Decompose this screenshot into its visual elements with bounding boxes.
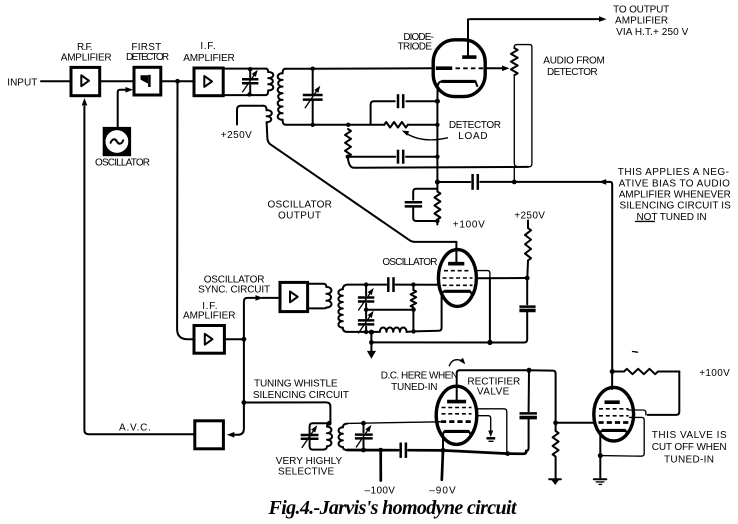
svg-text:AMPLIFIER: AMPLIFIER — [61, 53, 112, 64]
variable capacitor C12 — [355, 425, 373, 447]
resistor R1 detector load — [384, 122, 408, 128]
caption Fig.4 — [268, 497, 518, 519]
inductor T1 secondary — [278, 69, 286, 125]
svg-text:DETECTOR: DETECTOR — [547, 67, 598, 78]
wire IF2 output — [224, 338, 244, 340]
V5 anode plate — [447, 400, 466, 404]
oscillator sync box — [280, 282, 308, 311]
label OSCILLATOR (valve) — [382, 257, 437, 268]
label +100V (bias) — [699, 368, 730, 379]
svg-text:AMPLIFIER: AMPLIFIER — [183, 311, 236, 322]
arrowhead into sync box — [256, 295, 264, 301]
capacitor C3 — [398, 94, 403, 108]
inductor L4 — [323, 423, 332, 449]
wire C1 top lead — [249, 69, 251, 78]
V5 grid 3 (dashed heavy) — [441, 420, 472, 423]
V6 anode plate — [605, 400, 620, 404]
label FIRST DETECTOR — [126, 42, 169, 63]
capacitor C5 bypass — [405, 189, 438, 221]
variable capacitor C1 — [242, 70, 258, 92]
svg-text:–100V: –100V — [365, 486, 396, 497]
wire C9 leads — [365, 310, 367, 332]
wire osc grid rail — [348, 284, 439, 286]
wire AGC bus — [348, 157, 528, 168]
svg-text:–90V: –90V — [429, 486, 456, 497]
wire cathode bus — [371, 341, 524, 343]
wire trunk to AVC — [234, 403, 244, 435]
svg-text:+250V: +250V — [221, 130, 252, 141]
node padder junction — [364, 308, 368, 312]
svg-text:TUNED-IN: TUNED-IN — [391, 382, 437, 393]
wire cathode link — [407, 295, 442, 332]
label +250V (oscillator) — [514, 210, 545, 221]
wire padder row — [366, 309, 413, 311]
rectifier V5 envelope — [436, 386, 477, 444]
label RECTIFIER VALVE — [467, 377, 520, 398]
label OSCILLATOR SYNC. CIRCUIT — [198, 275, 270, 296]
svg-text:SYNC. CIRCUIT: SYNC. CIRCUIT — [198, 284, 270, 295]
V6 grid 3 (dashed heavy) — [599, 421, 629, 424]
node bias junction — [610, 369, 615, 374]
node g-loop junction — [505, 451, 510, 456]
node tank1 top junction — [327, 421, 332, 426]
wire +250V feed — [237, 106, 264, 125]
inductor T1 primary — [266, 69, 273, 96]
cut-off valve V6 envelope — [594, 387, 634, 441]
wire silencing feed — [244, 402, 331, 423]
variable capacitor C2 — [303, 86, 323, 108]
wire secondary top rail — [285, 68, 313, 70]
wire C1 bottom lead — [249, 85, 251, 95]
ground (oscillator) — [367, 351, 376, 359]
node cathode junction — [435, 99, 440, 104]
label OSCILLATOR OUTPUT — [268, 199, 332, 221]
V5 grid 2 (dashed) — [442, 413, 472, 415]
svg-text:OSCILLATOR: OSCILLATOR — [382, 257, 437, 268]
svg-text:VALVE: VALVE — [477, 386, 510, 397]
label +100V (decoupler) — [453, 220, 485, 231]
node osc rail junction 1 — [364, 282, 368, 286]
pointer arrow tuned-in — [449, 358, 465, 366]
svg-text:R.F.: R.F. — [77, 42, 93, 53]
label THIS APPLIES ... — [618, 167, 731, 223]
variable capacitor C11 — [301, 425, 319, 447]
resistor R7 — [553, 423, 559, 479]
wire grid to wiper — [485, 67, 502, 69]
wire C2 top lead — [312, 69, 314, 95]
node audio out junction — [512, 180, 517, 185]
wire IF tank top rail — [223, 68, 266, 70]
svg-text:DETECTOR: DETECTOR — [449, 120, 501, 131]
svg-text:TRIODE: TRIODE — [398, 41, 433, 52]
svg-text:SILENCING CIRCUIT IS: SILENCING CIRCUIT IS — [620, 201, 732, 212]
label OSCILLATOR (box) — [95, 157, 150, 168]
node reservoir junction — [527, 368, 532, 373]
wire V5 g3 arrow — [476, 416, 496, 442]
wire V6 cathode lead — [599, 435, 601, 478]
svg-text:TUNED-IN: TUNED-IN — [664, 454, 714, 465]
wire screen drop — [489, 278, 491, 342]
wire V5 screen loop — [475, 409, 507, 454]
node C2 bottom junction — [311, 123, 315, 127]
V6 grid 2 (dashed) — [599, 415, 629, 417]
node audio junction — [435, 180, 440, 185]
node osc rail junction 2 — [411, 282, 415, 286]
label -100V — [365, 486, 396, 497]
node tank top junction — [248, 67, 252, 71]
node V6 cathode junction — [598, 453, 603, 458]
node screen bypass junction — [487, 340, 492, 345]
capacitor C10 screen bypass — [519, 278, 535, 343]
svg-text:TUNING WHISTLE: TUNING WHISTLE — [254, 378, 338, 389]
svg-text:I.F.: I.F. — [200, 41, 215, 52]
node tank2 bottom junction — [361, 448, 366, 453]
svg-text:CUT OFF WHEN: CUT OFF WHEN — [652, 442, 727, 453]
resistor R8 — [612, 369, 679, 374]
wire secondary bottom rail — [286, 124, 348, 126]
label TUNING WHISTLE SILENCING CIRCUIT — [253, 378, 349, 401]
wire screen rail — [476, 277, 527, 279]
wire IF tank bottom rail — [223, 94, 266, 96]
diode-triode V2 envelope — [433, 40, 485, 97]
V5 anode lead — [457, 370, 460, 400]
svg-text:OUTPUT: OUTPUT — [278, 210, 321, 221]
wire AGC cap row — [348, 156, 438, 158]
wire oscillator anode diagonal — [267, 122, 457, 242]
node R2 bottom junction — [346, 155, 350, 159]
wire cathode rail — [443, 450, 526, 453]
wire osc tank bottom rail — [348, 331, 380, 333]
node tank bottom junction — [364, 330, 368, 334]
ground (R7) — [549, 479, 561, 485]
wire bias feedback line — [610, 182, 612, 389]
label I.F. AMPLIFIER (2) — [183, 301, 236, 322]
wire to valve2 grid rail — [529, 370, 594, 423]
inductor L5 — [339, 424, 348, 450]
svg-text:+250V: +250V — [514, 210, 545, 221]
svg-text:A.V.C.: A.V.C. — [119, 423, 151, 434]
triode grid (dashed) — [456, 67, 484, 69]
label AUDIO FROM DETECTOR — [543, 56, 605, 78]
svg-text:AUDIO FROM: AUDIO FROM — [543, 56, 605, 67]
node R3 bottom junction — [435, 219, 439, 223]
wire C12 leads — [363, 423, 365, 450]
arrowhead into detector — [126, 87, 134, 93]
wire pot bottom lead — [514, 75, 518, 167]
V4 anode plate — [448, 262, 464, 266]
svg-text:OSCILLATOR: OSCILLATOR — [268, 199, 332, 210]
resistor R2 — [345, 129, 351, 157]
ground (earth V6) — [594, 479, 607, 484]
label A.V.C. — [119, 423, 151, 434]
wire audio coupling row — [437, 181, 610, 183]
V5 cathode — [443, 431, 471, 436]
arrowhead bias into audio — [599, 179, 607, 185]
arrowhead to output amplifier — [599, 16, 607, 22]
svg-text:ATIVE BIAS TO AUDIO: ATIVE BIAS TO AUDIO — [619, 178, 731, 189]
V6 grid 1 (dashed) — [599, 408, 629, 410]
wire -90V drop — [442, 450, 443, 479]
wire +100V to screen — [648, 372, 680, 415]
svg-text:THIS APPLIES A NEG-: THIS APPLIES A NEG- — [618, 167, 729, 178]
svg-text:OSCILLATOR: OSCILLATOR — [95, 157, 150, 168]
detector load pointer arrow — [402, 131, 448, 140]
arrowhead AVC into RF amp — [82, 98, 88, 106]
triode anode plate — [462, 55, 476, 59]
A.V.C. box — [195, 421, 224, 449]
wire RF to first detector — [100, 80, 134, 82]
capacitor C13 coupling — [401, 443, 406, 458]
node tank bottom junction 2 — [369, 330, 374, 335]
node load-right junction — [435, 123, 439, 127]
svg-text:+100V: +100V — [699, 368, 730, 379]
wire tank to ground — [370, 332, 372, 351]
node screen junction — [525, 276, 530, 281]
inductor L2 oscillator coupling — [264, 106, 272, 123]
capacitor C4 — [398, 150, 403, 164]
V6 cathode — [600, 430, 627, 435]
I.F. amplifier V1 block — [194, 68, 223, 96]
label R.F. AMPLIFIER — [61, 42, 112, 64]
arrowhead wiper — [502, 66, 510, 72]
node bias tap junction — [378, 448, 383, 453]
first detector U2 block — [134, 67, 161, 95]
wire input lead — [41, 80, 71, 82]
svg-text:DETECTOR: DETECTOR — [126, 52, 169, 63]
wire pot top loop — [514, 45, 532, 167]
node secondary top junction — [311, 67, 315, 71]
node tank bottom junction — [247, 92, 251, 96]
wire detector to node A — [161, 80, 194, 82]
V4 grid 1 (dashed) — [444, 270, 471, 272]
wire trunk to silencing — [243, 339, 245, 402]
V4 grid 3 (dashed) — [443, 284, 473, 286]
wire grid feed to diode — [313, 67, 434, 69]
resistor R6 dropper — [525, 221, 531, 276]
wire silencing to V5 grid — [436, 421, 441, 423]
label I.F. AMPLIFIER — [183, 41, 235, 64]
resistor R3 — [434, 182, 440, 225]
label D.C. HERE WHEN TUNED-IN — [381, 371, 458, 394]
label THIS VALVE IS CUT OFF WHEN TUNED-IN — [652, 430, 727, 466]
wire detector load top rail — [348, 124, 437, 126]
svg-text:D.C. HERE WHEN: D.C. HERE WHEN — [381, 371, 458, 382]
wire triode cathode drop — [436, 101, 438, 182]
wire oscillator to detector — [118, 90, 127, 127]
V4 grid 2 (dashed) — [443, 277, 473, 279]
capacitor C14 reservoir — [520, 370, 537, 451]
svg-text:SILENCING CIRCUIT: SILENCING CIRCUIT — [253, 390, 349, 401]
diode anode plate — [436, 66, 452, 70]
wire anode top rail — [460, 369, 529, 371]
V5 grid 1 (dashed) — [442, 407, 472, 409]
label +250V (IF feed) — [221, 130, 252, 141]
node IF2 junction — [242, 337, 247, 342]
node V5 cathode junction — [441, 448, 446, 453]
capacitor C7 grid — [388, 277, 393, 292]
node tank2 top junction — [361, 421, 366, 426]
stray mark — [633, 351, 638, 354]
silencing tank1 frame — [310, 423, 331, 449]
inductor L3 cathode coil — [380, 327, 407, 331]
label DETECTOR LOAD — [449, 120, 501, 142]
node INPUT label — [7, 78, 37, 89]
arrowhead into AVC box — [227, 432, 235, 438]
node screen grid junction — [553, 420, 558, 425]
node silencing junction — [242, 400, 247, 405]
wire -100V drop — [379, 450, 382, 480]
cathode of V2 — [437, 81, 477, 101]
wire tank2 bottom rail — [347, 449, 443, 452]
resistor R5 grid leak — [411, 285, 417, 332]
variable capacitor C8 — [358, 288, 374, 310]
wire cathode cap row — [371, 101, 438, 125]
wire screen exit — [476, 271, 490, 279]
node load-left junction — [346, 123, 350, 127]
node grid leak bottom junction — [411, 308, 415, 312]
wire V6 suppressor loop — [600, 417, 644, 456]
wire C2 bottom lead — [312, 100, 314, 125]
svg-text:VIA H.T.+ 250 V: VIA H.T.+ 250 V — [616, 27, 689, 38]
variable capacitor C9 — [358, 311, 374, 333]
wire V5 cathode lead — [442, 436, 444, 450]
node cathode coil junction — [411, 329, 415, 333]
svg-text:AMPLIFIER: AMPLIFIER — [183, 53, 235, 64]
sync transformer T2 secondary — [338, 285, 347, 332]
svg-text:AMPLIFIER: AMPLIFIER — [615, 15, 668, 26]
svg-text:+100V: +100V — [453, 220, 485, 231]
oscillator mixer-injection box — [103, 127, 131, 156]
R.F. amplifier block — [71, 67, 100, 95]
capacitor C6 coupling — [473, 174, 478, 190]
label TO OUTPUT AMPLIFIER VIA H.T.+250V — [613, 5, 688, 39]
triode anode lead — [467, 19, 469, 55]
wire HT output line — [468, 18, 599, 20]
wire tank2 top rail — [347, 422, 441, 424]
wire to sync circuit — [244, 298, 280, 339]
wire AVC return — [84, 107, 194, 435]
wire C8 leads — [365, 285, 367, 310]
svg-text:THIS VALVE IS: THIS VALVE IS — [652, 430, 727, 441]
wire V6 screen loop — [628, 410, 646, 415]
node ground junction — [369, 340, 374, 345]
wire node A trunk — [177, 81, 194, 339]
sync transformer T2 primary — [308, 284, 332, 309]
svg-text:LOAD: LOAD — [458, 131, 487, 142]
I.F. amplifier V3 block — [194, 326, 224, 354]
oscillator V4 envelope — [438, 250, 476, 307]
wire pot tap drop — [513, 167, 515, 182]
V4 anode lead — [455, 242, 457, 262]
node A junction — [175, 79, 180, 84]
label -90V — [429, 486, 456, 497]
svg-text:INPUT: INPUT — [7, 78, 37, 89]
svg-text:AMPLIFIER WHENEVER: AMPLIFIER WHENEVER — [619, 190, 731, 201]
potentiometer R4 audio — [511, 48, 518, 75]
svg-text:TO OUTPUT: TO OUTPUT — [613, 5, 669, 16]
label VERY HIGHLY SELECTIVE — [276, 456, 343, 477]
node C4-right junction — [435, 155, 439, 159]
svg-text:Fig.4.-Jarvis's homodyne circu: Fig.4.-Jarvis's homodyne circuit — [268, 497, 518, 519]
V4 cathode — [442, 291, 473, 295]
label DIODE-TRIODE — [398, 32, 434, 53]
svg-text:SELECTIVE: SELECTIVE — [278, 467, 334, 478]
